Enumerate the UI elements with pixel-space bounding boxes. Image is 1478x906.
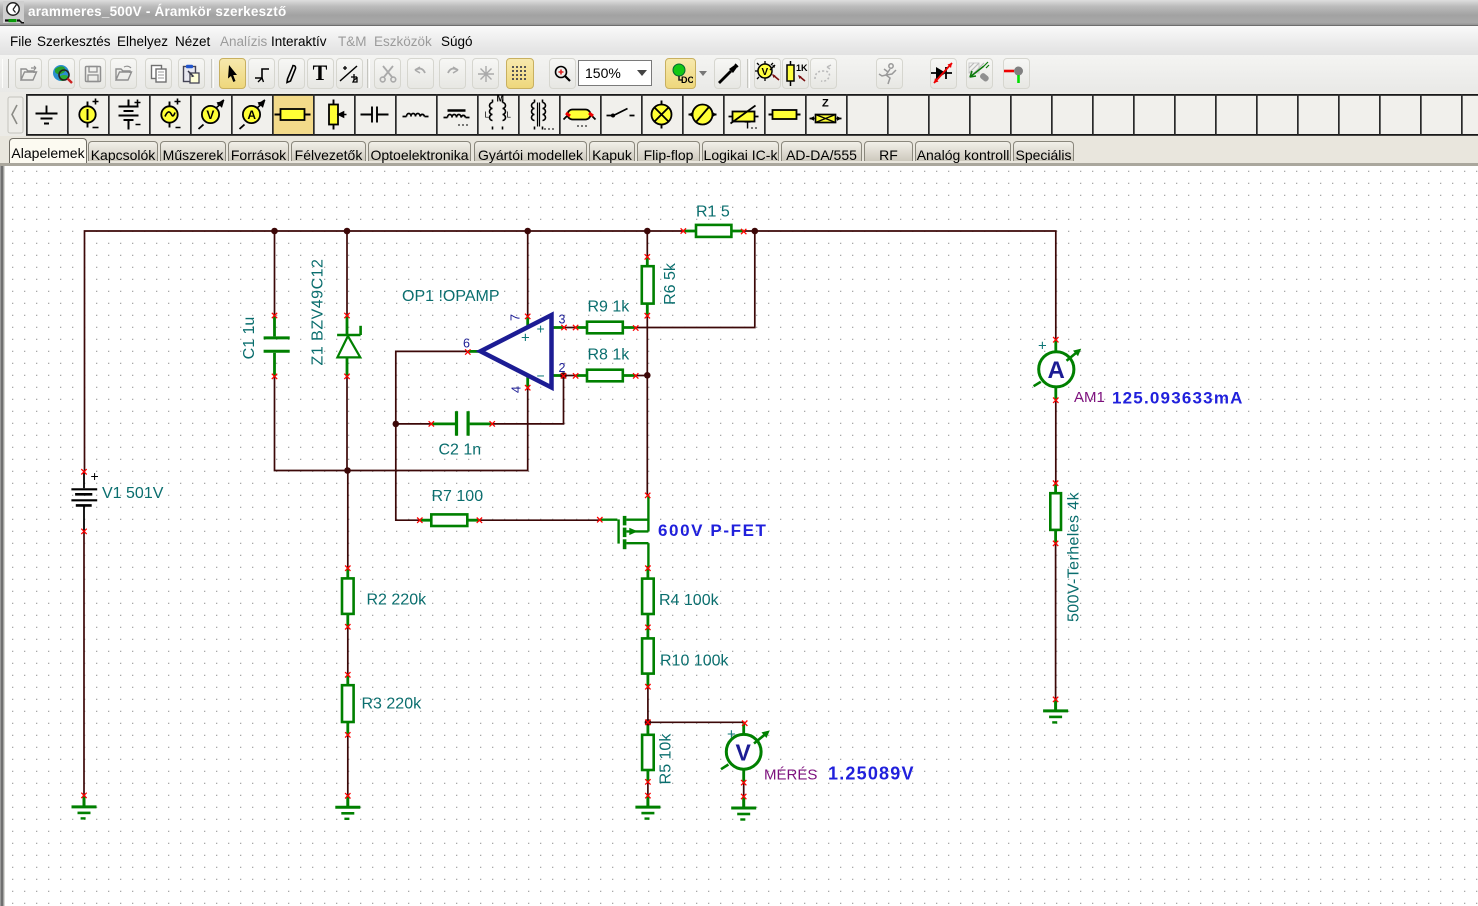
wire op-amp output feedback to R7 xyxy=(396,351,468,520)
svg-text:+: + xyxy=(91,468,99,484)
svg-text:R2 220k: R2 220k xyxy=(367,592,428,609)
svg-text:OP1 !OPAMP: OP1 !OPAMP xyxy=(402,288,500,305)
svg-text:MÉRÉS: MÉRÉS xyxy=(764,767,817,784)
battery V1 xyxy=(71,472,97,532)
svg-text:DC: DC xyxy=(681,75,693,85)
svg-text:3: 3 xyxy=(559,313,566,327)
wire output node to C2 left xyxy=(396,423,432,425)
wire R6 bottom down to P-FET drain xyxy=(646,316,648,496)
svg-text:500V-Terheles 4k: 500V-Terheles 4k xyxy=(1066,491,1083,622)
svg-text:R3 220k: R3 220k xyxy=(362,696,423,713)
svg-text:V1 501V: V1 501V xyxy=(102,485,164,502)
resistor R8 xyxy=(576,370,636,382)
svg-text:R7 100: R7 100 xyxy=(432,488,484,505)
resistor R3 xyxy=(342,675,354,735)
junction R8 R6 node xyxy=(644,372,651,379)
wire C2 right up to inverting node xyxy=(492,376,563,424)
svg-text:C2 1n: C2 1n xyxy=(439,442,482,459)
svg-text:M: M xyxy=(497,94,505,104)
svg-text:A: A xyxy=(1048,357,1065,384)
wire from R1 right along top to ammeter xyxy=(744,231,1056,340)
transistor Q1 600V P-FET xyxy=(600,495,649,568)
junction inverting input node xyxy=(560,372,567,379)
svg-text:Z1 BZV49C12: Z1 BZV49C12 xyxy=(310,259,327,366)
svg-text:6: 6 xyxy=(463,337,470,351)
svg-text:+: + xyxy=(521,330,530,347)
wire R3 to ground xyxy=(347,735,349,796)
svg-text:+: + xyxy=(1038,338,1047,355)
svg-text:AM1: AM1 xyxy=(1074,389,1105,406)
ground below R3 xyxy=(335,796,360,819)
svg-text:V: V xyxy=(736,740,752,766)
ammeter AM1 xyxy=(1034,338,1082,401)
wire R10 bottom to node B xyxy=(647,687,649,723)
wire pin 3 to R9 left xyxy=(564,327,576,329)
wire Z1 top branch xyxy=(346,231,348,316)
wire top rail to R6 top xyxy=(646,231,648,257)
svg-text:−: − xyxy=(537,368,545,384)
wire Z1 bottom to node A xyxy=(346,376,348,470)
wire R2 to R3 xyxy=(347,627,349,675)
svg-text:1K: 1K xyxy=(796,63,808,73)
wire voltmeter bottom to ground xyxy=(743,783,745,797)
svg-text:L: L xyxy=(507,111,512,120)
svg-text:V: V xyxy=(761,67,768,78)
resistor R6 xyxy=(642,257,654,316)
wire load resistor bottom to ground xyxy=(1055,543,1057,699)
junction top rail pin7 xyxy=(524,228,531,235)
voltmeter MERES xyxy=(721,723,770,782)
svg-text:1.25089V: 1.25089V xyxy=(828,764,915,784)
resistor R10 xyxy=(642,627,654,686)
wire node A down to R2 xyxy=(347,471,349,569)
wire pin 2 to R8 left xyxy=(564,375,576,377)
svg-text:A: A xyxy=(247,108,256,122)
junction top rail Z1 xyxy=(344,228,351,235)
svg-text:4: 4 xyxy=(510,386,524,393)
resistor R5 xyxy=(642,722,654,782)
svg-text:R8 1k: R8 1k xyxy=(588,347,631,364)
ground below R5 xyxy=(635,796,660,819)
svg-text:C1 1u: C1 1u xyxy=(241,317,258,360)
junction node A xyxy=(344,467,351,474)
svg-text:R6 5k: R6 5k xyxy=(662,262,679,305)
wire R5 bottom to ground xyxy=(647,782,649,796)
resistor R7 xyxy=(420,514,480,526)
wire R8 right to R6 branch junction xyxy=(636,375,648,377)
capacitor C2 xyxy=(431,411,492,436)
ground below load resistor xyxy=(1043,699,1068,722)
ground below V1 xyxy=(72,795,97,818)
resistor R1 xyxy=(683,225,743,237)
wire top rail down to op-amp pin 7 xyxy=(527,231,529,316)
wire R9 right up to top rail junction xyxy=(636,231,755,328)
svg-text:R1 5: R1 5 xyxy=(696,204,730,221)
resistor R9 xyxy=(576,322,636,334)
svg-text:R5 10k: R5 10k xyxy=(658,733,675,785)
resistor R2 xyxy=(342,568,354,627)
svg-text:R4 100k: R4 100k xyxy=(659,592,720,609)
svg-text:R10 100k: R10 100k xyxy=(660,653,729,670)
svg-text:+: + xyxy=(537,321,545,337)
svg-text:T: T xyxy=(745,121,751,132)
wire top rail from V1 node to R1 left xyxy=(85,231,684,472)
wire C1 top branch xyxy=(274,231,276,316)
svg-text:R9 1k: R9 1k xyxy=(588,299,631,316)
svg-text:Z: Z xyxy=(822,98,829,110)
svg-text:125.093633mA: 125.093633mA xyxy=(1112,389,1244,408)
svg-text:600V P-FET: 600V P-FET xyxy=(658,521,768,540)
svg-text:+: + xyxy=(727,726,736,743)
terminal marks xyxy=(81,469,86,474)
capacitor C1 xyxy=(264,316,290,377)
ground below voltmeter xyxy=(731,797,756,820)
resistor 500V-Terheles load xyxy=(1050,483,1061,543)
junction output node at C2 xyxy=(393,421,400,428)
svg-text:7: 7 xyxy=(509,314,523,321)
wire R7 right to P-FET gate xyxy=(479,519,599,521)
wire ammeter bottom to load resistor xyxy=(1055,400,1057,483)
resistor R4 xyxy=(642,566,654,627)
junction node B xyxy=(645,719,652,726)
wire node B to voltmeter plus xyxy=(648,721,745,723)
zener diode Z1 xyxy=(337,316,361,377)
junction top rail R1 right xyxy=(752,228,759,235)
junction top rail R6 xyxy=(644,228,651,235)
svg-text:V: V xyxy=(206,108,214,122)
wire V1 minus to ground xyxy=(83,531,85,795)
op-amp OP1 xyxy=(468,315,564,388)
svg-text:L: L xyxy=(485,111,490,120)
junction top rail C1 xyxy=(271,228,278,235)
wire C1 bottom to node A to op-amp pin 4 xyxy=(275,376,528,470)
